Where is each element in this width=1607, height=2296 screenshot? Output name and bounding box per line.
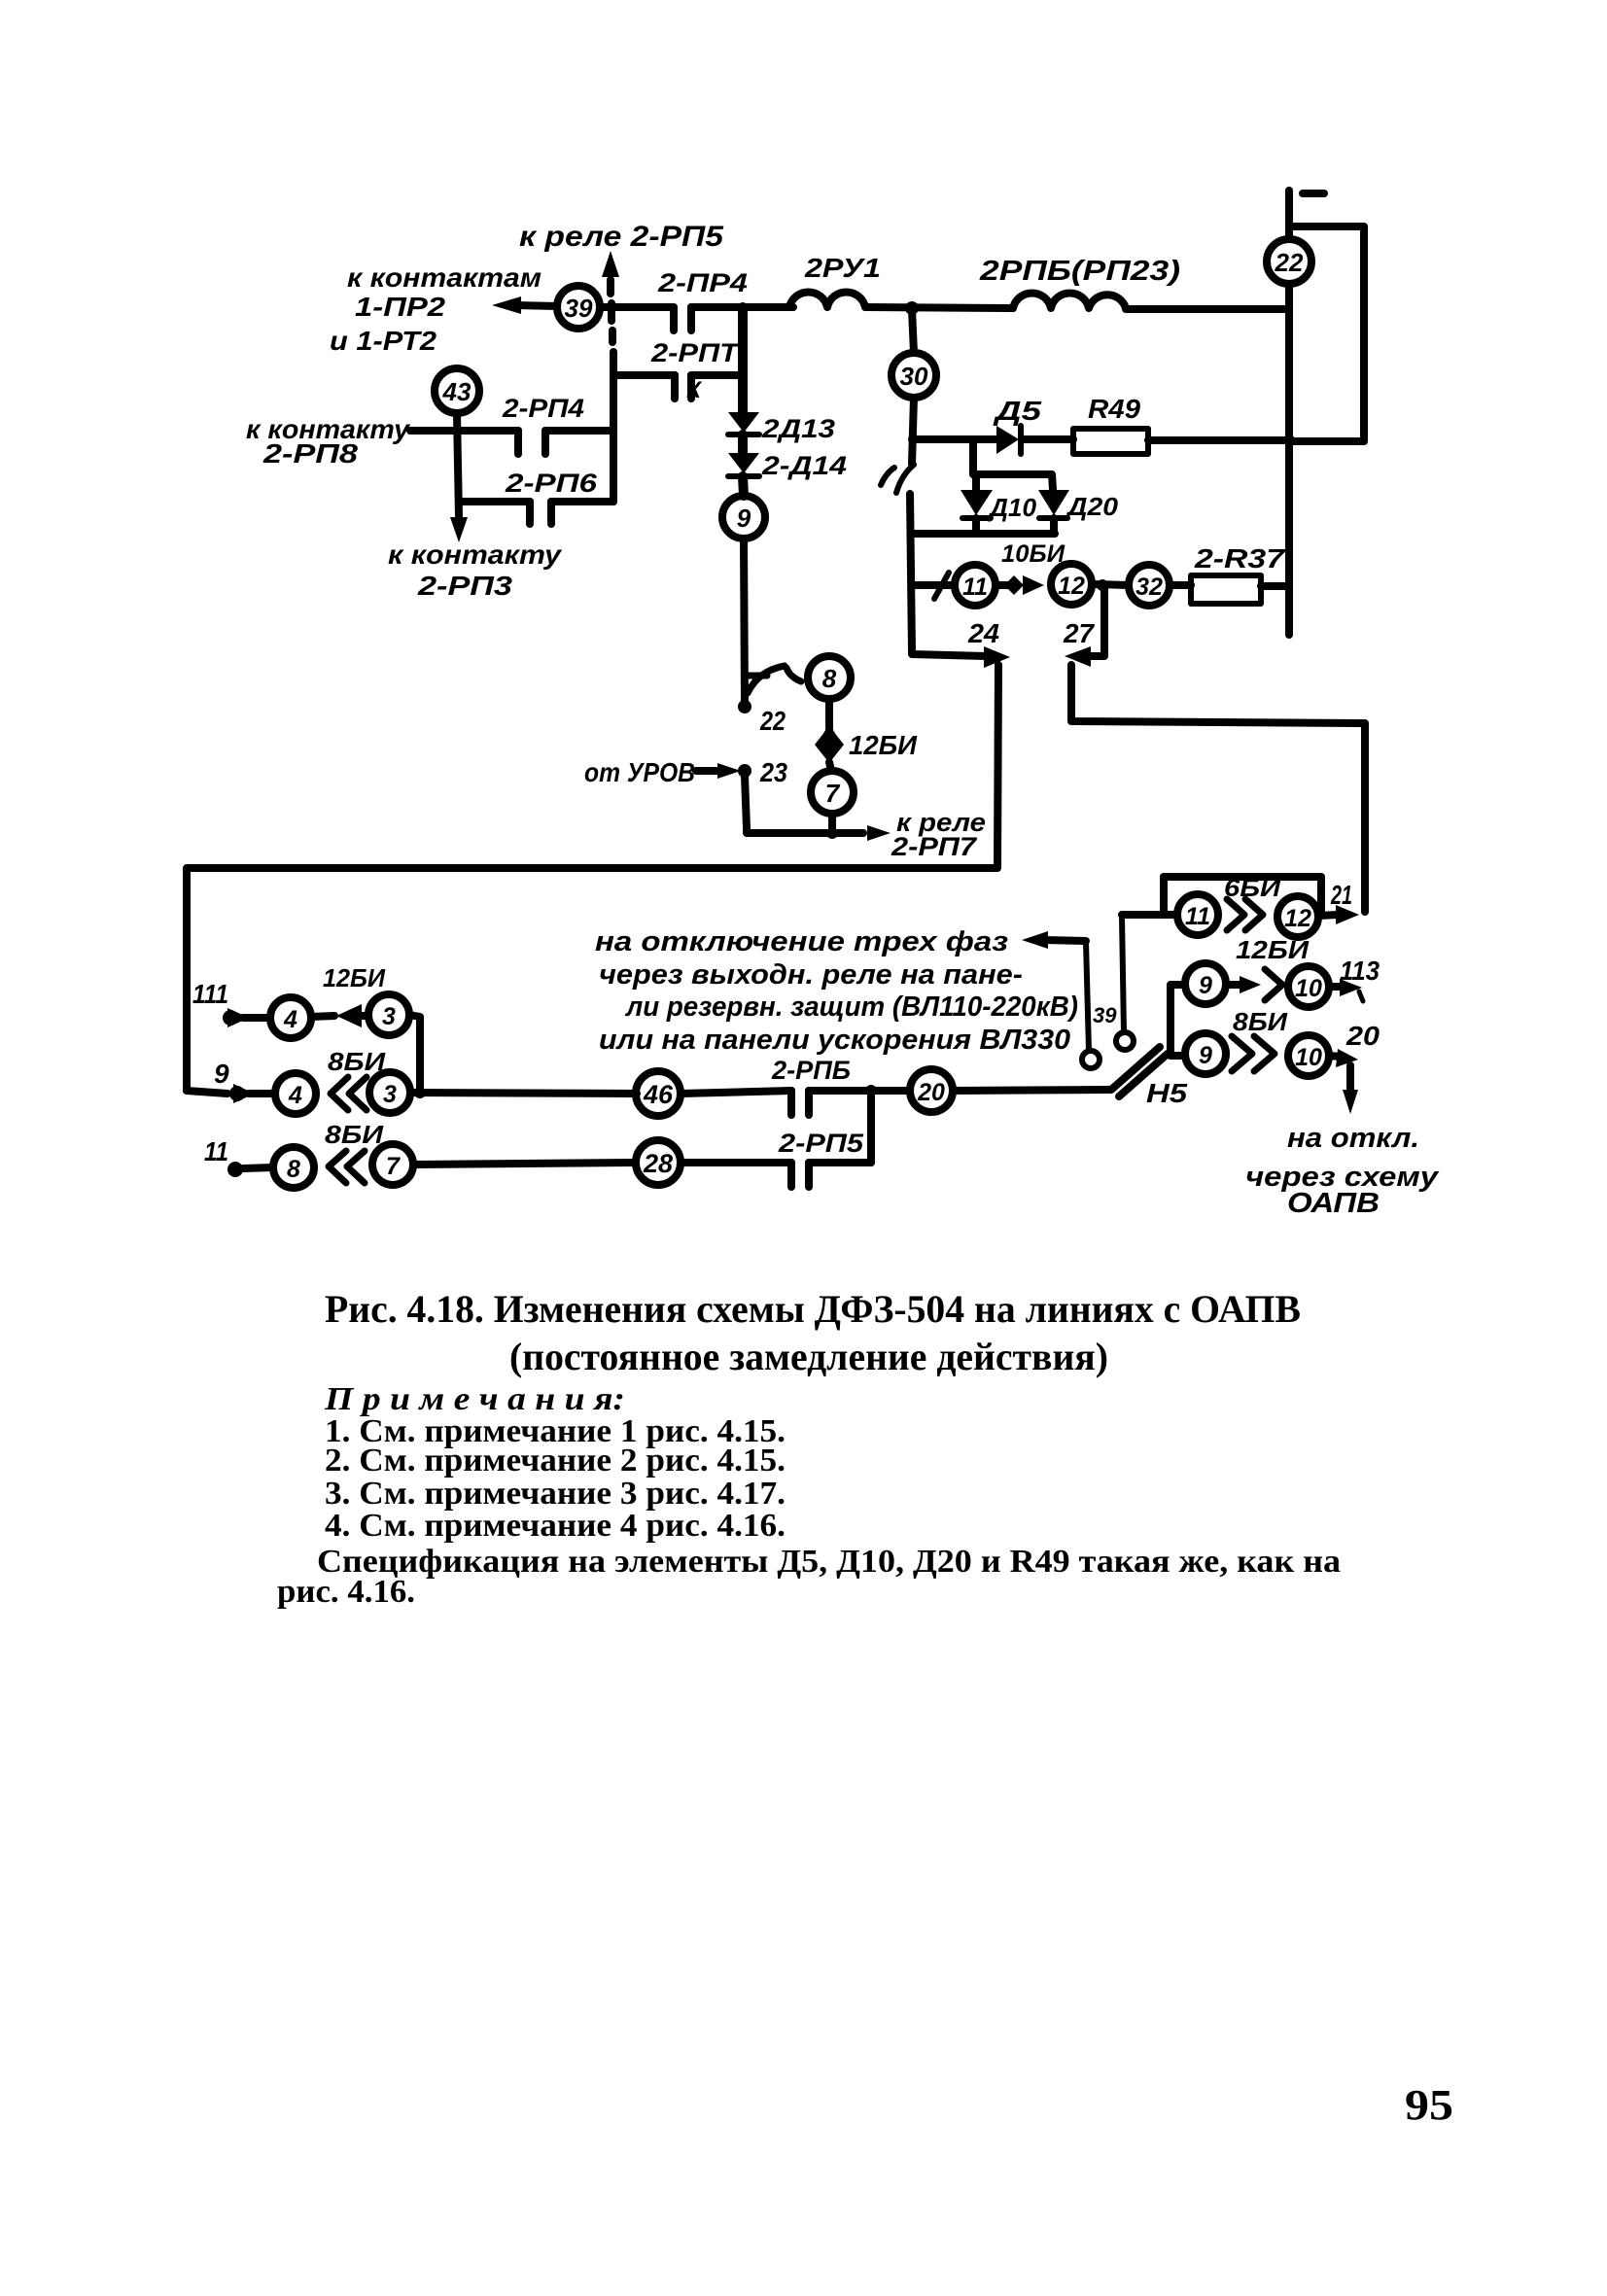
svg-text:R49: R49 (1088, 394, 1140, 424)
svg-text:к реле 2-РП5: к реле 2-РП5 (519, 221, 724, 253)
node 39 (557, 286, 600, 329)
node 3 (row 111) (368, 994, 409, 1035)
wire Д10/Д20 bottom bus (912, 530, 1055, 538)
wire down-stub from Д5 anode (969, 440, 977, 474)
wire from node 9 down to terminal 22 (744, 539, 745, 704)
svg-text:11: 11 (1185, 903, 1210, 930)
svg-text:П р и м е ч а н и я:: П р и м е ч а н и я: (324, 1381, 625, 1417)
svg-text:11: 11 (962, 574, 988, 601)
node 43 (435, 368, 479, 413)
svg-text:2-РПБ: 2-РПБ (771, 1056, 851, 1085)
wire thin riser to open node (1122, 917, 1124, 1032)
svg-text:10: 10 (1295, 975, 1322, 1002)
wire (825, 699, 833, 729)
svg-text:9: 9 (737, 504, 751, 533)
svg-text:2-РП5: 2-РП5 (778, 1129, 864, 1158)
svg-text:21: 21 (1330, 880, 1352, 910)
svg-text:6БИ: 6БИ (1224, 875, 1281, 902)
svg-text:2-РП7: 2-РП7 (891, 832, 978, 861)
diode 2-Д14 (728, 453, 759, 476)
wire (681, 1091, 791, 1094)
node 9 (722, 496, 765, 539)
wire bracket joining 9-10 rows (1170, 985, 1185, 1056)
svg-text:32: 32 (1135, 574, 1163, 601)
wire (1170, 581, 1191, 589)
svg-text:8БИ: 8БИ (1233, 1007, 1288, 1036)
svg-text:2-РП8: 2-РП8 (262, 438, 359, 469)
svg-text:39: 39 (1093, 1003, 1117, 1027)
terminal 23 (738, 764, 751, 778)
svg-text:ли резервн. защит (ВЛ110-220кВ: ли резервн. защит (ВЛ110-220кВ) (624, 991, 1078, 1023)
contact 2-РПБ (791, 1091, 909, 1115)
node 9 (row A) (1185, 963, 1226, 1004)
wire (1261, 582, 1289, 590)
contact tick above terminal 22 (746, 673, 767, 679)
svg-text:113: 113 (1340, 956, 1380, 986)
wire node 7 stem (828, 814, 836, 833)
polarity chevrons row 11 (329, 1151, 365, 1183)
svg-text:22: 22 (1275, 248, 1304, 277)
switch blade below node 30 (881, 465, 914, 493)
node 46 (636, 1071, 681, 1116)
polarity chevrons row 9 (331, 1077, 367, 1110)
svg-text:2. См. примечание 2 рис. 4.15.: 2. См. примечание 2 рис. 4.15. (325, 1443, 786, 1478)
svg-text:4: 4 (288, 1082, 302, 1109)
wire (1023, 435, 1073, 443)
node 9 (row B) (1185, 1033, 1226, 1074)
svg-text:20: 20 (917, 1079, 945, 1106)
wire from node 3 down to row 9 (409, 1015, 420, 1093)
terminal 22 (738, 700, 751, 713)
wire from 10БИ row down to terminal 27 (1065, 585, 1104, 667)
wire Д5 branch (912, 435, 996, 443)
svg-text:2РПБ(РП23): 2РПБ(РП23) (979, 256, 1180, 287)
junction node (905, 301, 919, 315)
wire Д10/Д20 top bus (973, 474, 1053, 490)
svg-text:27: 27 (1063, 618, 1095, 648)
wire vertical to diodes (738, 307, 748, 412)
wire corner to terminal 24 with arrow (912, 646, 1010, 668)
node 20 (910, 1069, 953, 1112)
svg-text:2-РПТ: 2-РПТ (650, 338, 741, 367)
polarity arrow row 111 (311, 1004, 368, 1027)
svg-text:10: 10 (1295, 1044, 1322, 1071)
switch blade to node 8 (748, 666, 785, 693)
node 7 (811, 771, 854, 814)
svg-text:46: 46 (643, 1080, 674, 1109)
wire 10БИ row start (912, 581, 955, 589)
svg-text:3: 3 (382, 1003, 396, 1030)
wire 6БИ row left stem (1122, 911, 1177, 919)
node 8 (row 11) (273, 1147, 314, 1188)
terminal 111 (223, 1008, 270, 1027)
svg-text:Д20: Д20 (1066, 492, 1119, 521)
svg-text:2-Д14: 2-Д14 (761, 451, 847, 480)
resistor R49 (1073, 429, 1148, 454)
wire (910, 494, 912, 652)
contact 2-ПР4 right side (691, 307, 793, 330)
wire main bus from node 39 to contact 2-ПР4 (600, 307, 674, 330)
terminal 9 (187, 1084, 275, 1103)
node 7 (row 11) (372, 1144, 413, 1185)
svg-text:3: 3 (383, 1081, 397, 1108)
svg-text:39: 39 (565, 294, 593, 323)
svg-text:к контакту: к контакту (388, 539, 563, 570)
svg-text:или на панели ускорения ВЛ330: или на панели ускорения ВЛ330 (599, 1025, 1070, 1056)
negative supply rail (1289, 191, 1324, 635)
svg-text:1-ПР2: 1-ПР2 (355, 292, 445, 322)
svg-text:2-ПР4: 2-ПР4 (657, 268, 748, 297)
svg-text:(постоянное замедление действи: (постоянное замедление действия) (509, 1335, 1108, 1378)
polarity chevrons (1227, 899, 1263, 930)
wire from terminal 24 down and long run left (187, 665, 998, 1091)
relay coil 2РПБ(РП23) (1013, 293, 1126, 308)
svg-text:9: 9 (1199, 1042, 1212, 1069)
wire (1148, 436, 1289, 444)
svg-text:22: 22 (759, 706, 786, 736)
svg-text:12: 12 (1284, 905, 1311, 932)
svg-text:К: К (686, 377, 703, 403)
open node 2 (1082, 1051, 1100, 1068)
svg-text:12БИ: 12БИ (323, 963, 386, 992)
relay coil 2РУ1 (789, 292, 865, 307)
wire arrow to terminal 21 (1318, 905, 1359, 924)
svg-text:на откл.: на откл. (1287, 1123, 1419, 1154)
svg-text:8БИ: 8БИ (325, 1120, 385, 1149)
svg-text:4: 4 (283, 1006, 297, 1033)
terminal 11 (227, 1162, 273, 1177)
wire riser joining rows (867, 1091, 875, 1163)
open node (1116, 1032, 1134, 1050)
wire (738, 435, 748, 453)
svg-text:23: 23 (759, 757, 787, 787)
node 8 (786, 656, 851, 699)
wire row 9 long run (410, 1093, 637, 1094)
junction node (1283, 435, 1295, 446)
svg-text:рис. 4.16.: рис. 4.16. (277, 1574, 415, 1610)
contact 2-РП4 (518, 431, 613, 454)
node 10 (row A) (1288, 966, 1329, 1007)
svg-text:2Д13: 2Д13 (761, 414, 835, 443)
svg-text:12: 12 (1058, 573, 1085, 600)
diode Д20 (1038, 490, 1069, 534)
wire arrow to terminal 113 (1329, 979, 1363, 1001)
svg-text:8: 8 (822, 664, 837, 693)
diode 2Д13 (728, 412, 759, 435)
svg-text:2РУ1: 2РУ1 (804, 253, 881, 283)
svg-text:12БИ: 12БИ (849, 730, 918, 760)
svg-text:Н5: Н5 (1146, 1078, 1187, 1108)
svg-text:2-РП3: 2-РП3 (417, 571, 513, 601)
svg-text:Д5: Д5 (993, 396, 1041, 426)
wire (865, 307, 1013, 308)
wire (743, 476, 744, 496)
contact 2-РП5 (791, 1163, 871, 1187)
svg-text:на отключение трех фаз: на отключение трех фаз (595, 926, 1008, 957)
wire (1126, 305, 1289, 313)
wire 2-РП6 row (460, 498, 530, 505)
svg-text:2-РП4: 2-РП4 (502, 394, 584, 423)
polarity mark 12БИ diamond (815, 723, 844, 763)
switch Н5 (1111, 1047, 1168, 1096)
svg-text:95: 95 (1405, 2081, 1453, 2129)
svg-text:10БИ: 10БИ (1001, 540, 1066, 568)
wire from terminal 23 down and right with arrow to 2-РП7 (745, 776, 891, 841)
contact 2-РПТ branch wire (613, 375, 743, 399)
svg-text:20: 20 (1345, 1021, 1380, 1051)
svg-text:43: 43 (442, 377, 472, 406)
node 12 (6БИ row) (1277, 896, 1318, 937)
wire with junction (1092, 579, 1129, 591)
svg-text:7: 7 (825, 779, 841, 808)
diode Д5 (996, 426, 1021, 454)
svg-text:4. См. примечание 4 рис. 4.16.: 4. См. примечание 4 рис. 4.16. (325, 1508, 786, 1544)
wire arrow от УРОВ to terminal 23 (696, 763, 741, 779)
wire dashed riser to 2-РП5 with up arrow (602, 251, 619, 375)
polarity mark diamond-arrow (996, 575, 1044, 595)
resistor 2-R37 (1191, 575, 1261, 604)
wire arrow to terminal 20 and down arrow (1329, 1049, 1358, 1114)
node 28 (636, 1140, 681, 1185)
wire (681, 1159, 791, 1166)
diode Д10 (961, 474, 993, 534)
node 10 (row B) (1288, 1035, 1329, 1076)
svg-text:30: 30 (900, 362, 928, 391)
svg-text:ОАПВ: ОАПВ (1287, 1188, 1380, 1219)
wire right loop (1289, 226, 1364, 441)
wire from к контакту 2-РП8 (410, 427, 518, 435)
svg-text:3. См. примечание 3 рис. 4.17.: 3. См. примечание 3 рис. 4.17. (325, 1476, 786, 1512)
svg-text:111: 111 (192, 979, 228, 1009)
wire from terminal 27 down to right block (1071, 665, 1365, 912)
svg-text:7: 7 (386, 1153, 401, 1180)
node 11 (6БИ row) (1177, 894, 1218, 935)
svg-text:24: 24 (967, 618, 999, 648)
wire row 11 long run (413, 1163, 636, 1165)
polarity chevrons row B (1232, 1036, 1275, 1071)
node 4 (row 111) (270, 997, 311, 1038)
node 11 (955, 565, 996, 606)
wire (829, 762, 831, 771)
wire riser to node 30 (912, 309, 914, 353)
wire below node 30 (912, 398, 914, 464)
svg-text:2-РП6: 2-РП6 (505, 469, 598, 498)
svg-text:Д10: Д10 (988, 493, 1037, 522)
svg-text:Спецификация на элементы Д5, Д: Спецификация на элементы Д5, Д10, Д20 и … (317, 1544, 1341, 1580)
svg-text:8: 8 (287, 1156, 300, 1183)
wire to switch Н5 (953, 1090, 1111, 1091)
node 12 (1051, 564, 1092, 605)
breaker tick (934, 573, 949, 599)
node 22 (1267, 239, 1311, 284)
svg-text:2-R37: 2-R37 (1194, 543, 1286, 574)
svg-text:к контактам: к контактам (347, 262, 541, 293)
svg-text:9: 9 (1199, 972, 1212, 999)
node 3 (row 9) (369, 1072, 410, 1113)
svg-text:от УРОВ: от УРОВ (584, 757, 695, 787)
node 30 (891, 353, 936, 398)
svg-text:28: 28 (643, 1149, 673, 1178)
svg-text:через выходн. реле на пане-: через выходн. реле на пане- (599, 959, 1023, 991)
svg-text:9: 9 (214, 1059, 229, 1089)
6БИ block: bypass rectangle (1164, 877, 1321, 915)
contact 2-РП6 (530, 502, 613, 524)
wire arrow to contacts 1-ПР2 (492, 296, 557, 314)
wire stem of node 43 down with arrow (450, 413, 468, 542)
wire left riser x631 (610, 375, 617, 502)
node 32 (1129, 565, 1170, 606)
svg-text:Рис. 4.18. Изменения схемы ДФЗ: Рис. 4.18. Изменения схемы ДФЗ-504 на ли… (325, 1287, 1301, 1331)
polarity arrow+chevron row A (1226, 969, 1282, 1000)
node 4 (row 9) (275, 1073, 316, 1114)
svg-text:11: 11 (204, 1136, 228, 1166)
svg-text:и 1-РТ2: и 1-РТ2 (330, 326, 437, 356)
svg-text:12БИ: 12БИ (1236, 935, 1310, 964)
wire from open node up and left arrow to trip note (1022, 931, 1089, 1051)
